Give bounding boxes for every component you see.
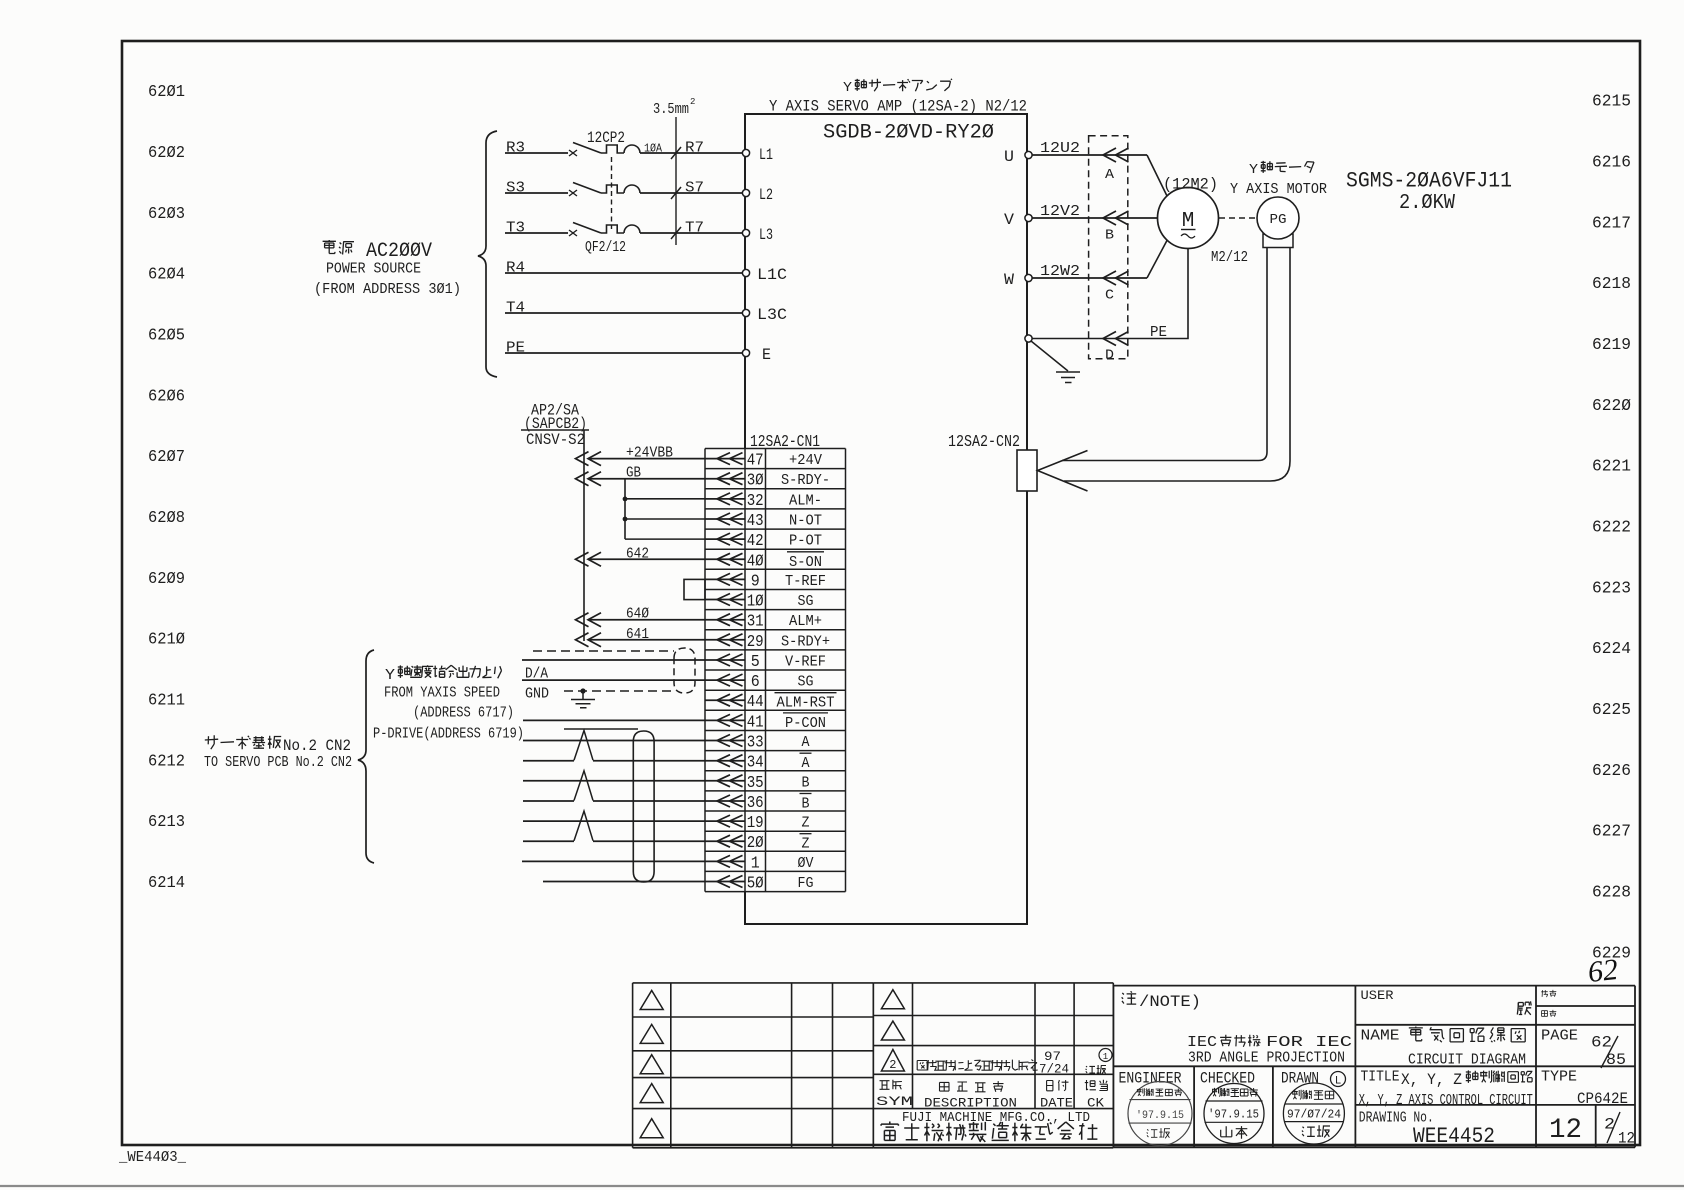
svg-text:6212: 6212 <box>148 752 185 771</box>
svg-text:62: 62 <box>1586 953 1619 989</box>
pin 5 V-REF wire stub and arrow <box>705 654 745 666</box>
svg-text:A: A <box>1105 168 1115 183</box>
svg-text:2Ø: 2Ø <box>747 833 764 852</box>
svg-text:+24V: +24V <box>789 452 822 469</box>
breaker 12CP2 pole R3 thermal element <box>601 145 624 153</box>
bus CNSV-S2 vertical <box>583 430 585 641</box>
svg-text:621Ø: 621Ø <box>148 631 185 650</box>
overline P-CON <box>783 712 828 714</box>
svg-text:U: U <box>1004 148 1014 166</box>
svg-text:X, Y, Z: X, Y, Z <box>1401 1071 1462 1089</box>
svg-text:SGMS-2ØA6VFJ11: SGMS-2ØA6VFJ11 <box>1346 169 1512 194</box>
svg-text:(FROM ADDRESS 3Ø1): (FROM ADDRESS 3Ø1) <box>314 282 461 298</box>
earth ground symbol <box>1056 372 1080 383</box>
svg-text:34: 34 <box>747 753 764 772</box>
svg-text:2: 2 <box>1604 1116 1615 1134</box>
svg-text:32: 32 <box>747 491 764 510</box>
pin 41 P-CON wire stub and arrow <box>705 714 745 726</box>
motor 12M2 circle <box>1158 188 1219 249</box>
maker name kanji Fuji Kikai Seizo KK <box>881 1122 898 1141</box>
svg-text:WEE4452: WEE4452 <box>1413 1124 1495 1149</box>
svg-text:ALM+: ALM+ <box>789 613 822 630</box>
wire gauge tick S7 <box>671 187 681 199</box>
svg-text:B: B <box>1105 229 1114 244</box>
terminal E <box>742 349 749 356</box>
stamp CHECKED <box>1204 1084 1264 1144</box>
arrow 12U2 <box>1103 148 1129 162</box>
label bunsho small <box>1541 990 1548 997</box>
svg-text:D: D <box>1105 349 1114 364</box>
arrow 642 <box>576 552 602 566</box>
wire +24VBB <box>588 458 705 460</box>
overline B <box>800 793 812 795</box>
wire D/A to pin 6 SG <box>522 679 705 681</box>
pin 44 ALM-RST wire stub and arrow <box>705 694 745 706</box>
svg-text:33: 33 <box>747 733 764 752</box>
page number 62/85 <box>1591 1034 1626 1070</box>
pin 47 +24V wire stub and arrow <box>705 453 745 465</box>
svg-text:6214: 6214 <box>148 874 185 893</box>
svg-text:L3C: L3C <box>757 306 787 324</box>
svg-text:Y: Y <box>385 667 395 684</box>
svg-text:44: 44 <box>747 692 764 711</box>
svg-text:6225: 6225 <box>1592 701 1631 720</box>
svg-text:35: 35 <box>747 773 764 792</box>
revision 2 date 97 7/24 <box>1039 1050 1069 1077</box>
svg-text:3.5mm: 3.5mm <box>653 102 689 118</box>
svg-text:(12M2): (12M2) <box>1163 176 1218 194</box>
svg-text:SG: SG <box>798 674 814 691</box>
svg-text:T7: T7 <box>685 221 704 237</box>
svg-text:1: 1 <box>751 853 760 872</box>
wire PE motor frame <box>1032 248 1188 339</box>
underline SAPCB2 <box>521 429 589 431</box>
svg-text:6223: 6223 <box>1592 579 1631 598</box>
svg-text:QF2/12: QF2/12 <box>585 240 626 256</box>
revision triangle left row 3 <box>640 1055 663 1074</box>
breaker 12CP2 pole R3 magnetic arc <box>624 145 640 153</box>
title XYZ axis control (Japanese) <box>1401 1070 1532 1089</box>
revision triangle 2 <box>881 1050 904 1073</box>
wire GB branch to row 32 <box>625 498 705 500</box>
wire to earth from terminal <box>1031 341 1068 371</box>
wire 12U2 <box>1032 154 1147 156</box>
svg-text:GND: GND <box>525 687 549 703</box>
wire 641 <box>588 639 705 641</box>
connector 12SA2-CN2 arrow <box>1038 451 1088 492</box>
svg-text:2.ØKW: 2.ØKW <box>1399 192 1455 215</box>
wire to pin 1 0V <box>522 860 705 862</box>
svg-text:FROM YAXIS SPEED: FROM YAXIS SPEED <box>384 686 500 702</box>
svg-text:642: 642 <box>626 546 649 562</box>
pin 31 ALM+ wire stub and arrow <box>705 614 745 626</box>
pin 42 P-OT wire stub and arrow <box>705 533 745 545</box>
svg-text:S-ON: S-ON <box>789 554 822 571</box>
svg-text:12W2: 12W2 <box>1040 264 1080 280</box>
svg-text:+24VBB: +24VBB <box>626 446 673 462</box>
svg-text:DATE: DATE <box>1040 1096 1073 1111</box>
encoder cable upper core <box>1062 248 1267 461</box>
shield dashed wire to pair 5/6 <box>533 650 674 652</box>
wire R3 to breaker <box>505 152 568 154</box>
wire S3 to breaker <box>505 192 568 194</box>
wire pair 33/34 lower <box>523 760 705 762</box>
title block grid <box>1113 986 1635 1148</box>
wire pair 19/2Ø upper <box>523 820 705 822</box>
terminal L3C <box>742 309 749 316</box>
pin 29 S-RDY+ wire stub and arrow <box>705 634 745 646</box>
wire 64Ø <box>588 619 705 621</box>
revision triangle left row 4 <box>640 1084 663 1103</box>
svg-text:T3: T3 <box>506 221 525 237</box>
pin 19 Z wire stub and arrow <box>705 815 745 827</box>
svg-text:S-RDY-: S-RDY- <box>781 472 830 489</box>
svg-text:B: B <box>802 774 810 791</box>
svg-text:ØV: ØV <box>798 855 814 872</box>
pin 3Ø S-RDY- wire stub and arrow <box>705 473 745 485</box>
svg-text:6: 6 <box>751 672 760 691</box>
revision triangle right row 2 <box>881 1021 904 1040</box>
svg-text:DESCRIPTION: DESCRIPTION <box>924 1096 1017 1111</box>
terminal U <box>1025 151 1032 158</box>
svg-text:6219: 6219 <box>1592 336 1631 355</box>
pin 4Ø S-ON wire stub and arrow <box>705 553 745 565</box>
revision triangle left row 1 <box>640 990 663 1009</box>
label Y axis motor (Japanese) <box>1249 161 1314 178</box>
svg-text:42: 42 <box>747 531 764 550</box>
svg-text:N-OT: N-OT <box>789 513 822 530</box>
label dono (Japanese) <box>1517 1001 1531 1015</box>
svg-text:B: B <box>802 796 810 813</box>
svg-text:W: W <box>1004 271 1015 289</box>
header DATE (Japanese+latin) <box>1040 1080 1073 1110</box>
svg-text:622Ø: 622Ø <box>1592 397 1631 416</box>
label power source AC200V (Japanese) <box>323 240 432 263</box>
svg-text:/NOTE): /NOTE) <box>1139 993 1201 1011</box>
svg-text:M2/12: M2/12 <box>1211 249 1248 266</box>
label Y axis servo amp (Japanese) <box>843 79 952 96</box>
svg-text:S-RDY+: S-RDY+ <box>781 633 830 650</box>
svg-text:2: 2 <box>889 1058 896 1072</box>
breaker 12CP2 pole S3 thermal element <box>601 185 624 193</box>
svg-text:FG: FG <box>798 875 814 892</box>
svg-text:POWER SOURCE: POWER SOURCE <box>326 262 421 278</box>
stamp DRAWN <box>1283 1083 1344 1144</box>
svg-text:C: C <box>1105 289 1114 304</box>
svg-text:No.2 CN2: No.2 CN2 <box>283 737 351 755</box>
svg-text:62Ø3: 62Ø3 <box>148 205 185 224</box>
junction dot GND <box>580 688 585 693</box>
svg-text:PAGE: PAGE <box>1541 1028 1578 1045</box>
wire T4 <box>505 312 745 314</box>
svg-text:CNSV-S2: CNSV-S2 <box>526 431 585 449</box>
approval row grid <box>1113 1066 1355 1147</box>
breaker 12CP2 mechanical link <box>611 157 613 229</box>
svg-text:29: 29 <box>747 632 764 651</box>
svg-text:PG: PG <box>1270 213 1287 228</box>
svg-text:TYPE: TYPE <box>1541 1069 1577 1086</box>
svg-text:5: 5 <box>751 652 760 671</box>
header CK (Japanese+latin) <box>1085 1080 1108 1111</box>
svg-text:T4: T4 <box>506 301 525 317</box>
svg-text:6218: 6218 <box>1592 275 1631 294</box>
svg-text:62Ø7: 62Ø7 <box>148 448 185 467</box>
encoder PG connector housing <box>1263 234 1293 248</box>
svg-text:36: 36 <box>747 793 764 812</box>
pin 5Ø FG wire stub and arrow <box>705 876 745 888</box>
svg-text:Y AXIS MOTOR: Y AXIS MOTOR <box>1230 182 1327 198</box>
note block box <box>1113 986 1355 1067</box>
svg-text:1Ø: 1Ø <box>747 592 764 611</box>
terminal L1C <box>742 269 749 276</box>
svg-text:641: 641 <box>626 627 649 643</box>
terminal L1 <box>742 149 749 156</box>
terminal V <box>1025 214 1032 221</box>
svg-text:SYM: SYM <box>876 1094 913 1109</box>
wire pair 35/36 upper <box>523 780 705 782</box>
stamp ENGINEER <box>1128 1082 1192 1146</box>
cable transition dashed box <box>1089 136 1128 359</box>
svg-text:47: 47 <box>747 451 764 470</box>
terminal PE output <box>1025 335 1032 342</box>
arrow +24VBB <box>576 452 602 466</box>
svg-text:Z: Z <box>802 836 810 853</box>
svg-text:9: 9 <box>751 571 760 590</box>
svg-text:62Ø5: 62Ø5 <box>148 327 185 346</box>
svg-text:4Ø: 4Ø <box>747 551 764 570</box>
svg-text:L3: L3 <box>759 226 773 244</box>
svg-text:SGDB-2ØVD-RY2Ø: SGDB-2ØVD-RY2Ø <box>823 122 994 145</box>
twist symbol pair 33/34 <box>564 729 638 760</box>
revision triangle left row 5 <box>640 1119 663 1138</box>
svg-text:3RD ANGLE PROJECTION: 3RD ANGLE PROJECTION <box>1188 1050 1345 1067</box>
sheet 2/12 <box>1604 1112 1635 1148</box>
breaker 12CP2 pole T3 magnetic arc <box>624 225 640 233</box>
svg-text:ALM-: ALM- <box>789 492 822 509</box>
svg-text:S7: S7 <box>685 181 704 197</box>
pin 36 B wire stub and arrow <box>705 795 745 807</box>
svg-text:5Ø: 5Ø <box>747 874 764 893</box>
svg-text:12V2: 12V2 <box>1040 204 1080 220</box>
svg-text:Y: Y <box>843 80 853 96</box>
revision triangle right row 1 <box>881 990 904 1009</box>
overline A <box>800 752 812 754</box>
wire to pin 5 V-REF <box>522 659 705 661</box>
svg-text:6217: 6217 <box>1592 214 1631 233</box>
pin 1 ØV wire stub and arrow <box>705 855 745 867</box>
svg-text:62Ø1: 62Ø1 <box>148 83 185 102</box>
label NOTE (Japanese) <box>1122 991 1201 1011</box>
svg-text:6215: 6215 <box>1592 93 1631 112</box>
wire 12U2 diagonal to motor <box>1147 155 1168 197</box>
wire PE <box>505 352 745 354</box>
wire S7 breaker to terminal <box>640 192 745 194</box>
pin 33 A wire stub and arrow <box>705 735 745 747</box>
svg-text:1: 1 <box>1103 1052 1108 1062</box>
svg-text:12U2: 12U2 <box>1040 141 1080 157</box>
svg-text:V-REF: V-REF <box>785 654 826 671</box>
svg-text:'97.9.15: '97.9.15 <box>1136 1110 1184 1122</box>
revision table left grid <box>633 983 874 1148</box>
svg-text:Y: Y <box>1249 162 1259 178</box>
svg-text:X, Y, Z AXIS CONTROL CIRCUIT: X, Y, Z AXIS CONTROL CIRCUIT <box>1359 1093 1533 1109</box>
label seisho small <box>1542 1011 1548 1017</box>
svg-text:12: 12 <box>1549 1115 1582 1146</box>
circled L mark <box>1331 1072 1346 1088</box>
svg-text:P-OT: P-OT <box>789 533 822 550</box>
svg-text:ENGINEER: ENGINEER <box>1119 1070 1182 1088</box>
breaker 12CP2 pole R3 blade <box>573 143 601 154</box>
arrow PE wire <box>1103 332 1129 346</box>
pin 6 SG wire stub and arrow <box>705 674 745 686</box>
arrow 12W2 <box>1103 271 1129 285</box>
wire T3 to breaker <box>505 232 568 234</box>
svg-text:1ØA: 1ØA <box>644 143 662 156</box>
svg-text:USER: USER <box>1361 988 1394 1003</box>
encoder PG circle <box>1257 197 1299 239</box>
svg-text:6226: 6226 <box>1592 762 1631 781</box>
svg-text:62Ø6: 62Ø6 <box>148 387 185 406</box>
pin 2Ø Z wire stub and arrow <box>705 835 745 847</box>
svg-text:CK: CK <box>1087 1096 1104 1111</box>
svg-text:7/24: 7/24 <box>1039 1063 1069 1077</box>
pin 32 ALM- wire stub and arrow <box>705 493 745 505</box>
svg-text:(ADDRESS 6717): (ADDRESS 6717) <box>413 706 514 722</box>
label servo board No.2 CN2 (Japanese) <box>205 735 351 755</box>
overline Z <box>800 833 812 835</box>
svg-text:T-REF: T-REF <box>785 573 826 590</box>
svg-text:12: 12 <box>1618 1130 1635 1148</box>
svg-text:41: 41 <box>747 712 764 731</box>
svg-text:NAME: NAME <box>1361 1028 1400 1045</box>
breaker 12CP2 pole S3 magnetic arc <box>624 185 640 193</box>
svg-text:E: E <box>762 346 771 364</box>
wire pair 35/36 lower <box>523 800 705 802</box>
arrow GB <box>576 472 602 486</box>
pin 34 A wire stub and arrow <box>705 755 745 767</box>
wire 12V2 <box>1032 217 1158 219</box>
wire to pin 50 FG <box>543 881 705 883</box>
wire pair 19/2Ø lower <box>523 840 705 842</box>
wire gauge tick T7 <box>671 227 681 239</box>
wire 12W2 <box>1032 277 1147 279</box>
breaker 12CP2 pole T3 thermal element <box>601 225 624 233</box>
svg-text:6211: 6211 <box>148 692 185 711</box>
wire 642 <box>588 558 705 560</box>
svg-text:IEC: IEC <box>1187 1034 1217 1051</box>
svg-text:ALM-RST: ALM-RST <box>777 695 835 712</box>
svg-text:6227: 6227 <box>1592 823 1631 842</box>
svg-text:P-CON: P-CON <box>785 715 826 732</box>
wire size measure line 3.5mm2 <box>675 117 677 245</box>
svg-text:12SA2-CN2: 12SA2-CN2 <box>948 432 1020 451</box>
svg-text:6222: 6222 <box>1592 519 1631 538</box>
breaker 12CP2 pole T3 blade <box>573 223 601 234</box>
svg-text:6224: 6224 <box>1592 640 1631 659</box>
breaker 12CP2 pole S3 blade <box>573 183 601 194</box>
servo amp U1 box SGDB-20VD-RY20 <box>745 114 1027 924</box>
header SYM (Japanese+latin) <box>876 1080 913 1109</box>
svg-text:FOR IEC: FOR IEC <box>1266 1034 1352 1051</box>
wire GB branch to row 43 <box>625 518 705 520</box>
pin 35 B wire stub and arrow <box>705 775 745 787</box>
svg-text:97/Ø7/24: 97/Ø7/24 <box>1287 1108 1341 1122</box>
svg-text:CP642E: CP642E <box>1577 1090 1628 1108</box>
title name denki kairo senzu (Japanese) <box>1409 1027 1423 1041</box>
svg-text:CIRCUIT DIAGRAM: CIRCUIT DIAGRAM <box>1408 1052 1526 1069</box>
svg-text:6228: 6228 <box>1592 884 1631 903</box>
svg-text:AC2ØØV: AC2ØØV <box>366 240 432 263</box>
svg-text:R7: R7 <box>685 141 704 157</box>
svg-text:L1: L1 <box>759 146 773 164</box>
svg-text:L1C: L1C <box>757 266 787 284</box>
wire gauge tick R7 <box>671 147 681 159</box>
svg-text:Y AXIS SERVO AMP (12SA-2) N2/1: Y AXIS SERVO AMP (12SA-2) N2/12 <box>769 98 1027 116</box>
svg-text:PE: PE <box>1150 325 1167 341</box>
breaker 12CP2 pole S3 contact <box>569 190 577 196</box>
svg-text:31: 31 <box>747 612 764 631</box>
svg-text:62Ø2: 62Ø2 <box>148 144 185 163</box>
svg-text:19: 19 <box>747 813 764 832</box>
twist symbol pair 35/36 <box>574 771 593 801</box>
svg-text:62Ø4: 62Ø4 <box>148 266 185 285</box>
revision table right grid <box>873 983 1113 1148</box>
svg-text:12CP2: 12CP2 <box>587 129 625 147</box>
svg-text:Z: Z <box>802 815 810 832</box>
svg-text:DRAWN: DRAWN <box>1281 1070 1319 1088</box>
svg-text:FUJI MACHINE MFG.CO., LTD: FUJI MACHINE MFG.CO., LTD <box>902 1110 1090 1126</box>
twist symbol pair 19/2Ø <box>574 811 593 841</box>
wire T7 breaker to terminal <box>640 232 745 234</box>
svg-text:_WE44Ø3_: _WE44Ø3_ <box>118 1149 187 1166</box>
svg-text:85: 85 <box>1606 1051 1626 1069</box>
wire R4 <box>505 272 745 274</box>
overline S-ON <box>787 551 824 553</box>
svg-text:S3: S3 <box>506 181 525 197</box>
svg-text:R4: R4 <box>506 261 525 277</box>
pin 43 N-OT wire stub and arrow <box>705 513 745 525</box>
svg-text:64Ø: 64Ø <box>626 607 649 623</box>
svg-text:P-DRIVE(ADDRESS 6719): P-DRIVE(ADDRESS 6719) <box>373 727 524 743</box>
svg-text:A: A <box>802 734 810 751</box>
cable shield oval pins 33-50 <box>633 731 654 882</box>
junction dot row 32 <box>623 497 628 502</box>
overline ALM-RST <box>775 692 837 694</box>
wire GB <box>588 478 705 480</box>
wire P-DRIVE to pin 41 P-CON <box>523 719 705 721</box>
circled 1 mark <box>1099 1049 1112 1063</box>
svg-text:SG: SG <box>798 593 814 610</box>
ground symbol GND <box>571 691 595 708</box>
dashed GND wire <box>564 690 676 692</box>
motor symbol M <box>1181 210 1196 238</box>
breaker 12CP2 pole T3 contact <box>569 230 577 236</box>
svg-text:'97.9.15: '97.9.15 <box>1208 1108 1259 1122</box>
svg-text:6216: 6216 <box>1592 154 1631 173</box>
arrow 12V2 <box>1103 211 1129 225</box>
svg-text:GB: GB <box>626 466 641 482</box>
revision 2 signer Esaka (Japanese) <box>1086 1066 1095 1073</box>
arrow 64Ø <box>576 613 602 627</box>
jumper T-REF to SG rows 9/10 <box>684 579 705 599</box>
connector 12SA2-CN2 box <box>1017 450 1037 491</box>
scan edge line bottom <box>0 1185 1684 1187</box>
shield oval pair 5/6 <box>674 648 695 693</box>
svg-text:V: V <box>1004 211 1015 229</box>
wire pair 33/34 upper <box>523 740 705 742</box>
svg-text:43: 43 <box>747 511 764 530</box>
svg-text:62Ø8: 62Ø8 <box>148 509 185 528</box>
